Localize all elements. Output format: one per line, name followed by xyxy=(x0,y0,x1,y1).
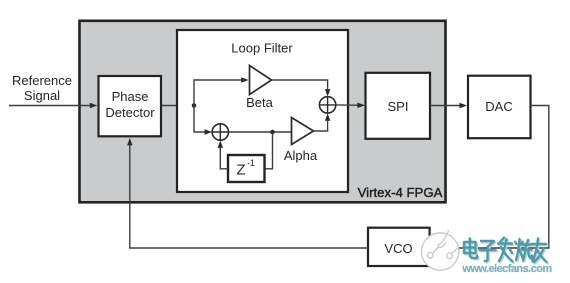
wire: DAC output down and left into VCO xyxy=(431,106,549,249)
wire: S1 output to Alpha amp xyxy=(229,131,292,133)
svg-text:Detector: Detector xyxy=(105,105,155,120)
svg-text:Phase: Phase xyxy=(112,89,149,104)
op-amp Beta (gain triangle) xyxy=(250,66,272,95)
wire: junction down into delay Z-1 xyxy=(266,132,273,169)
watermark logo (elecfans circle) xyxy=(422,230,459,270)
node: input junction xyxy=(192,103,197,108)
svg-text:DAC: DAC xyxy=(485,99,512,114)
wire: junction down to summer S1 xyxy=(194,106,208,133)
svg-text:Virtex-4 FPGA: Virtex-4 FPGA xyxy=(358,185,443,200)
wire: reference signal into Phase Detector xyxy=(9,105,93,107)
glyph 子 xyxy=(480,241,496,261)
wire: Alpha output to summer S2 bottom xyxy=(314,117,328,131)
Phase Detector box xyxy=(99,76,162,136)
wire: Phase Detector to Loop Filter junction xyxy=(162,105,194,107)
svg-text:SPI: SPI xyxy=(388,99,409,114)
glyph 烧 xyxy=(515,239,532,261)
wire: Z-1 output back to summer S1 xyxy=(220,145,228,169)
delay element Z-1 xyxy=(228,155,265,182)
Loop Filter box xyxy=(177,30,348,192)
glyph 友 xyxy=(532,239,547,263)
svg-text:Reference: Reference xyxy=(12,73,72,88)
summer S2 (output adder) xyxy=(319,97,335,113)
watermark text: 电子发烧友 (hand-drawn glyph strokes, shadow layer) xyxy=(465,239,548,263)
svg-text:Signal: Signal xyxy=(24,88,60,103)
SPI box xyxy=(366,73,431,139)
svg-text:www.elecfans.com: www.elecfans.com xyxy=(461,263,552,275)
svg-text:Beta: Beta xyxy=(246,95,274,110)
wire: junction up to Beta amp xyxy=(194,80,245,106)
watermark text: 电子发烧友 (teal layer) xyxy=(464,238,547,263)
glyph 电 xyxy=(464,239,477,259)
svg-text:Z: Z xyxy=(236,162,245,179)
wire: summer S2 to SPI xyxy=(336,104,361,106)
svg-text:VCO: VCO xyxy=(384,241,412,256)
node: junction to delay xyxy=(270,130,275,135)
glyph 发 xyxy=(498,238,513,262)
DAC box xyxy=(468,76,531,139)
svg-text:-1: -1 xyxy=(247,158,255,168)
wire: VCO output feedback to Phase Detector xyxy=(130,141,368,248)
wire: SPI to DAC xyxy=(430,105,463,107)
summer S1 (accumulator adder) xyxy=(212,124,228,140)
op-amp Alpha (gain triangle) xyxy=(292,118,314,145)
svg-text:Alpha: Alpha xyxy=(284,148,318,163)
svg-text:Loop Filter: Loop Filter xyxy=(231,41,293,56)
wire: Beta output to summer S2 top xyxy=(272,80,328,93)
VCO box xyxy=(368,228,430,266)
FPGA block Virtex-4 (gray region) xyxy=(80,21,446,203)
